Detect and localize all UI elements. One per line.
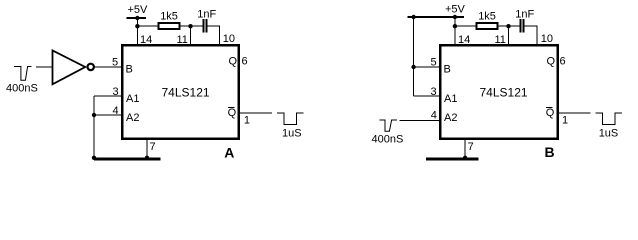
svg-text:14: 14 <box>458 34 470 46</box>
wire resistor to node 11 (B) <box>497 25 519 27</box>
svg-text:4: 4 <box>113 105 119 117</box>
wire rail to resistor R2 <box>455 25 477 27</box>
wire capacitor to pin 10 corner <box>208 26 220 45</box>
wire pin 7 to ground <box>146 140 148 159</box>
wire input to inverter U1 <box>36 66 52 68</box>
svg-text:1k5: 1k5 <box>478 11 496 23</box>
pin label Qbar overline <box>228 107 235 109</box>
wire pin 7 to ground (B) <box>464 140 466 159</box>
wire rail to resistor R1 <box>137 25 158 27</box>
svg-text:B: B <box>444 64 451 76</box>
svg-text:B: B <box>545 144 555 160</box>
svg-text:10: 10 <box>541 33 553 45</box>
svg-text:A1: A1 <box>126 93 139 105</box>
junction dot vertical/pin5 <box>411 65 415 69</box>
wire pin 4 stub <box>94 114 122 116</box>
wire pin 5 stub (B) <box>414 66 440 68</box>
resistor R2 1k5 body <box>477 23 498 29</box>
svg-text:7: 7 <box>150 141 156 153</box>
svg-text:11: 11 <box>495 34 506 46</box>
wire pin 3 stub <box>94 95 122 97</box>
wire vertical pins 3-4 to ground <box>93 96 95 159</box>
svg-text:400nS: 400nS <box>6 83 38 95</box>
svg-text:1uS: 1uS <box>282 128 302 140</box>
wire pin 3 stub (B) <box>414 95 440 97</box>
svg-text:1nF: 1nF <box>515 9 534 21</box>
svg-text:5: 5 <box>112 57 118 69</box>
svg-text:6: 6 <box>560 56 566 68</box>
capacitor C2 right plate <box>523 19 525 33</box>
pin label Qbar overline (B) <box>546 107 553 109</box>
wire bubble to pin 5 <box>95 66 122 68</box>
junction dot bar/left vertical <box>411 15 415 19</box>
capacitor C1 left plate <box>203 19 205 33</box>
wire pin 14 vertical (B) <box>454 17 456 45</box>
junction dot pin4/vertical <box>92 113 96 117</box>
output pulse symbol (A, 1uS) <box>277 113 303 124</box>
svg-text:Q: Q <box>229 56 238 68</box>
wire resistor to node 11 <box>179 25 202 27</box>
svg-text:1uS: 1uS <box>599 128 619 140</box>
svg-text:1k5: 1k5 <box>160 11 178 23</box>
wire input to pin 4 (B) <box>400 120 441 122</box>
svg-text:Q: Q <box>546 107 555 119</box>
resistor R1 1k5 body <box>159 23 180 29</box>
output pulse symbol (B, 1uS) <box>596 113 622 124</box>
svg-text:1: 1 <box>244 115 250 127</box>
wire pin 1 output (B) <box>558 112 591 114</box>
ground bar (B) <box>426 158 478 161</box>
input pulse symbol (400nS source) <box>14 67 32 81</box>
ground bar (A) <box>94 158 161 161</box>
svg-text:A1: A1 <box>444 93 457 105</box>
svg-text:Q: Q <box>228 107 237 119</box>
svg-text:5: 5 <box>431 57 437 69</box>
junction dot node 11 <box>188 24 192 28</box>
junction dot supply bar <box>135 16 139 20</box>
wire pin 11 vertical (B) <box>508 26 510 45</box>
input pulse symbol (B, 400nS) <box>380 120 398 131</box>
svg-text:A: A <box>224 144 234 160</box>
svg-text:14: 14 <box>140 34 152 46</box>
junction dot pin7/ground <box>145 156 149 160</box>
wire pin 11 vertical <box>190 26 192 45</box>
inverter U1 output bubble <box>88 64 94 70</box>
svg-text:1: 1 <box>562 115 568 127</box>
wire pin 1 output <box>239 112 272 114</box>
svg-text:3: 3 <box>113 86 119 98</box>
junction dot vertical/ground <box>92 156 96 160</box>
IC U3 74LS121 body (B) <box>440 45 558 139</box>
svg-text:Q: Q <box>547 56 556 68</box>
svg-text:4: 4 <box>431 110 437 122</box>
svg-text:1nF: 1nF <box>197 9 216 21</box>
svg-text:+5V: +5V <box>445 4 466 16</box>
svg-text:+5V: +5V <box>128 4 149 16</box>
junction dot node 11 (B) <box>506 24 510 28</box>
svg-text:3: 3 <box>431 86 437 98</box>
junction dot pin7/ground (B) <box>463 156 467 160</box>
wire left vertical +5V to pins 5,3 <box>413 17 415 96</box>
svg-text:7: 7 <box>468 141 474 153</box>
junction dot pin14/rail (B) <box>453 24 457 28</box>
wire pin 14 vertical from +5V <box>136 18 138 45</box>
junction dot pin14/rail <box>135 24 139 28</box>
+5V supply bar (A) <box>127 17 147 19</box>
svg-text:11: 11 <box>177 34 188 46</box>
capacitor C2 left plate <box>519 19 521 33</box>
inverter U1 triangle <box>53 51 86 85</box>
svg-text:A2: A2 <box>444 112 457 124</box>
IC U2 74LS121 body <box>122 45 239 139</box>
svg-text:6: 6 <box>242 56 248 68</box>
svg-text:400nS: 400nS <box>372 134 404 146</box>
wire capacitor to pin 10 corner (B) <box>525 26 537 45</box>
+5V supply bar / rail (B) <box>408 16 465 18</box>
capacitor C1 right plate <box>206 19 208 33</box>
junction dot bar/pin14 <box>453 15 457 19</box>
svg-text:74LS121: 74LS121 <box>162 86 210 100</box>
svg-text:74LS121: 74LS121 <box>480 86 528 100</box>
svg-text:B: B <box>126 64 133 76</box>
svg-text:10: 10 <box>223 33 235 45</box>
svg-text:A2: A2 <box>126 112 139 124</box>
